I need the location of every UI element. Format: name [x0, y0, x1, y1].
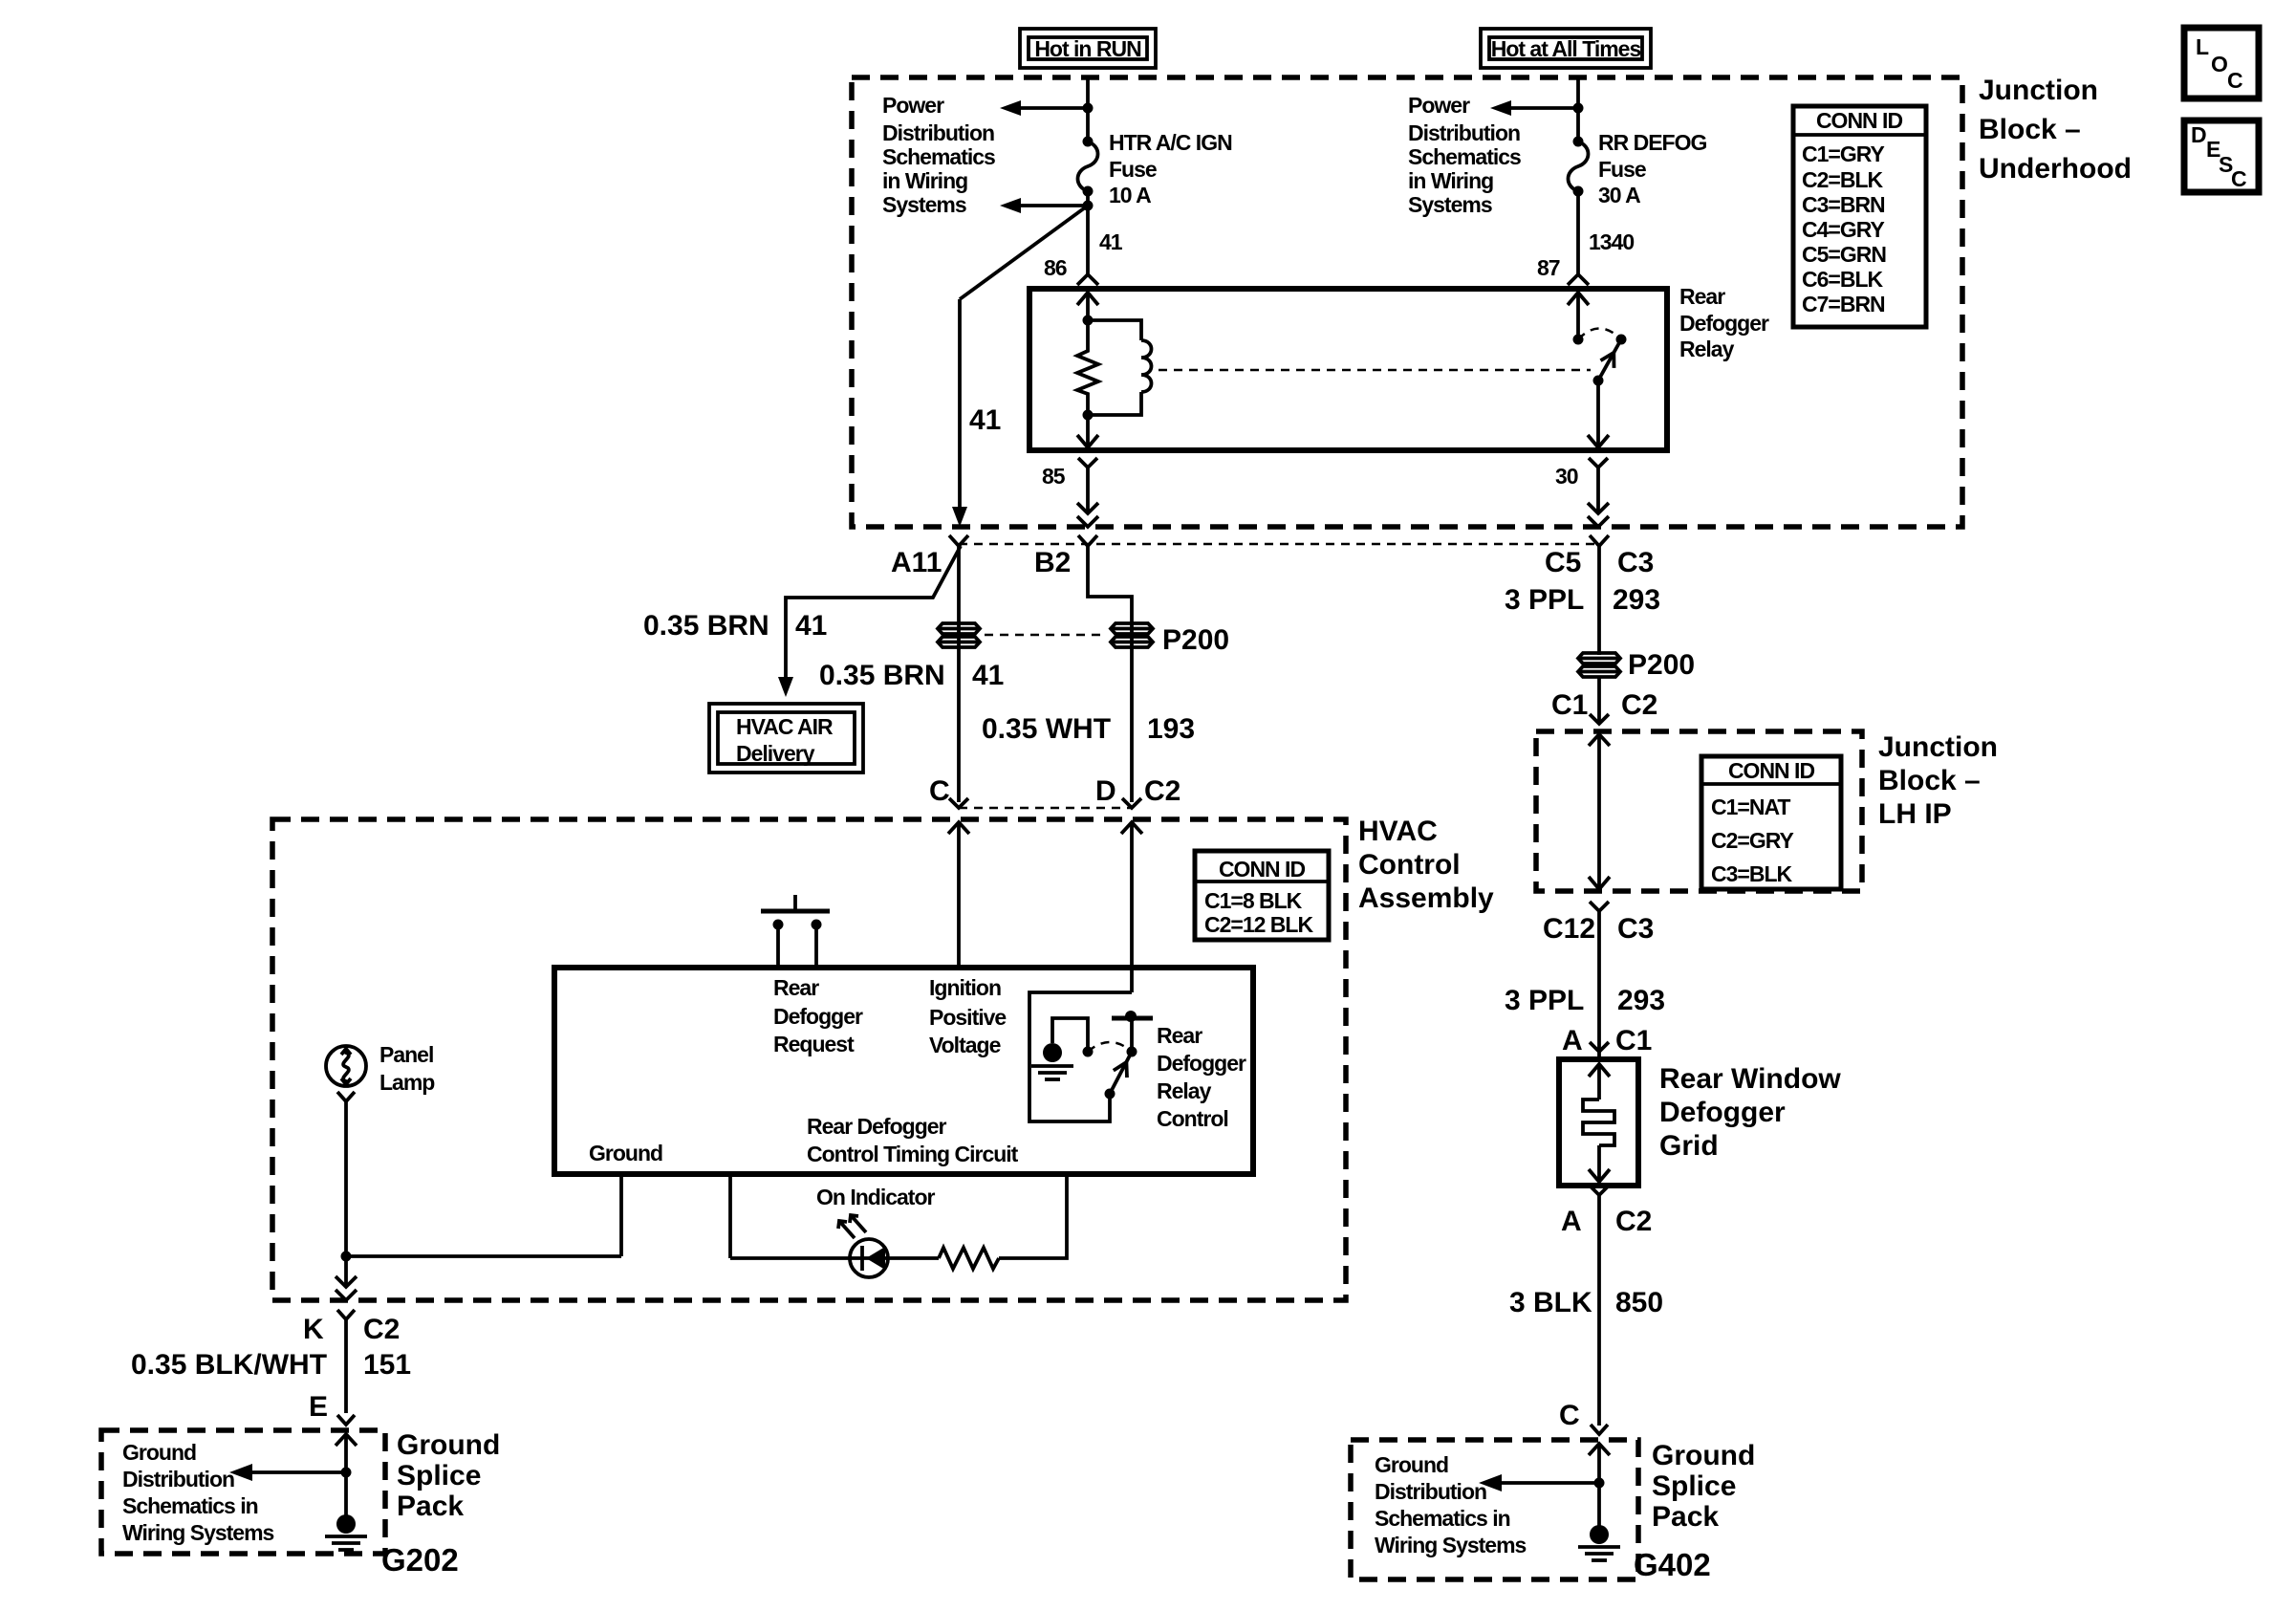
HVAC AIR Delivery box — [709, 704, 863, 773]
svg-text:A11: A11 — [891, 547, 942, 578]
connector Y at relay pin 86 — [1077, 274, 1098, 285]
wire: on indicator stub from timing box — [728, 1174, 732, 1258]
resistor inside relay — [1077, 320, 1098, 415]
svg-text:C3=BRN: C3=BRN — [1802, 192, 1885, 217]
CONN ID table (underhood) — [1793, 106, 1926, 327]
svg-text:C3=BLK: C3=BLK — [1711, 861, 1792, 886]
contact T bar — [1112, 1016, 1153, 1021]
ground splice pack G202 dashed boundary — [101, 1430, 385, 1554]
svg-text:1340: 1340 — [1589, 229, 1634, 254]
svg-text:Voltage: Voltage — [929, 1033, 1001, 1057]
svg-text:C2: C2 — [1621, 689, 1657, 721]
svg-text:Power: Power — [1408, 93, 1470, 118]
text: Rear Defogger Relay — [1679, 284, 1769, 361]
ground symbol G402 — [1578, 1545, 1620, 1549]
fuse RR DEFOG 30A — [1573, 137, 1584, 147]
inline connector P200 (circuit 293) — [1578, 653, 1620, 677]
wire: circuit 293 to defogger grid — [1597, 911, 1601, 1050]
svg-text:C2=12 BLK: C2=12 BLK — [1204, 912, 1313, 937]
Hot in RUN flag box — [1020, 29, 1156, 68]
svg-text:Underhood: Underhood — [1979, 153, 2132, 185]
svg-text:Ground: Ground — [122, 1440, 196, 1465]
svg-text:850: 850 — [1615, 1287, 1663, 1318]
svg-text:C1=GRY: C1=GRY — [1802, 142, 1884, 166]
svg-text:C: C — [2231, 166, 2246, 191]
svg-text:30: 30 — [1555, 464, 1578, 489]
CONN ID table (HVAC) — [1195, 851, 1329, 940]
pin 30 arrow inside relay — [1588, 435, 1609, 447]
svg-text:Systems: Systems — [882, 192, 966, 217]
svg-text:C5=GRN: C5=GRN — [1802, 242, 1886, 267]
svg-text:C: C — [929, 775, 950, 807]
connector Y pin C — [1591, 1425, 1608, 1434]
svg-text:Assembly: Assembly — [1358, 882, 1494, 914]
arrow: into HVAC AIR Delivery — [778, 677, 793, 697]
svg-text:Distribution: Distribution — [122, 1467, 234, 1491]
svg-text:Schematics: Schematics — [1408, 144, 1521, 169]
svg-text:in Wiring: in Wiring — [1408, 168, 1493, 193]
svg-text:0.35 BRN: 0.35 BRN — [643, 610, 769, 642]
svg-text:0.35 BLK/WHT: 0.35 BLK/WHT — [131, 1349, 327, 1381]
svg-text:Rear: Rear — [773, 975, 819, 1000]
wire: circuit 151 to splice pack — [344, 1319, 348, 1413]
svg-text:Rear Window: Rear Window — [1659, 1063, 1841, 1095]
wire: Hot in RUN feed down to fuse — [1086, 77, 1090, 141]
svg-text:Splice: Splice — [1652, 1470, 1736, 1502]
svg-text:Hot in RUN: Hot in RUN — [1034, 36, 1141, 61]
svg-text:Rear: Rear — [1157, 1023, 1202, 1048]
rear defogger control timing circuit box — [554, 968, 1253, 1174]
svg-text:C1: C1 — [1615, 1025, 1652, 1056]
svg-text:Distribution: Distribution — [1375, 1479, 1486, 1504]
rear defogger relay box — [1029, 289, 1667, 450]
svg-text:Junction: Junction — [1878, 731, 1998, 763]
svg-text:Splice: Splice — [397, 1460, 481, 1491]
connector Y pin C5/C3 — [1590, 535, 1609, 546]
svg-text:Ignition: Ignition — [929, 975, 1001, 1000]
svg-text:Ground: Ground — [397, 1429, 500, 1461]
svg-text:C2: C2 — [1144, 775, 1180, 807]
wire: fuse output — [1086, 191, 1090, 274]
svg-text:Schematics in: Schematics in — [1375, 1506, 1510, 1531]
inductor coil humps — [1141, 340, 1152, 392]
ground dot — [1043, 1043, 1062, 1062]
ground G402 dot — [1590, 1525, 1609, 1544]
svg-text:G402: G402 — [1634, 1547, 1711, 1582]
connector Y at grid pin A — [1590, 1042, 1609, 1052]
svg-text:Defogger: Defogger — [773, 1004, 863, 1029]
connector Y below relay pin 30 — [1589, 458, 1608, 468]
text: Rear Defogger Control Timing Circuit — [807, 1114, 1019, 1166]
svg-text:41: 41 — [972, 660, 1004, 691]
wire: splice branch arrow — [250, 1470, 346, 1474]
wire: circuit 850 to splice pack — [1597, 1195, 1601, 1426]
LED triangle — [866, 1247, 885, 1270]
thin dashed connector face row A11-B2-C5 — [959, 543, 1599, 546]
node: splice junction — [341, 1468, 352, 1478]
node: splice junction G402 — [1594, 1478, 1605, 1489]
svg-text:0.35 WHT: 0.35 WHT — [982, 713, 1111, 745]
svg-text:C1=NAT: C1=NAT — [1711, 795, 1790, 819]
wire: pin 30 down to junction block edge — [1596, 468, 1600, 512]
svg-text:LH IP: LH IP — [1878, 798, 1952, 830]
CONN ID table (LH IP) — [1701, 756, 1841, 889]
arrow out of grid — [1589, 1169, 1610, 1182]
LED circle — [850, 1239, 888, 1277]
svg-text:C2=GRY: C2=GRY — [1711, 828, 1793, 853]
svg-text:Rear Defogger: Rear Defogger — [807, 1114, 947, 1139]
text: Power Distribution Schematics in Wiring Systems (left) — [882, 93, 995, 217]
connector Y below grid — [1590, 1186, 1609, 1195]
LOC legend box — [2184, 28, 2259, 98]
svg-text:D: D — [2191, 122, 2206, 147]
LED cathode bar — [860, 1246, 864, 1271]
connector Y into LH IP — [1590, 714, 1609, 724]
svg-text:HTR A/C IGN: HTR A/C IGN — [1109, 130, 1232, 155]
text: Ground Distribution Schematics in Wiring Systems (G402) — [1375, 1452, 1527, 1557]
node: control switch contact — [1127, 1047, 1137, 1057]
svg-text:A: A — [1562, 1025, 1583, 1056]
svg-text:Panel: Panel — [379, 1042, 433, 1067]
inline connector P200 (left, circuit 41) — [938, 623, 980, 647]
svg-text:Systems: Systems — [1408, 192, 1492, 217]
ground symbol G202 — [325, 1535, 367, 1538]
wire: splice pack lead to G402 — [1597, 1444, 1601, 1535]
arrow into LH IP — [1589, 734, 1610, 746]
wire: A11 branch diagonal to HVAC AIR delivery — [786, 546, 961, 679]
svg-text:L: L — [2196, 34, 2209, 59]
text: Rear Defogger Relay Control — [1157, 1023, 1246, 1131]
wire: pin 85 down to junction block edge — [1086, 468, 1090, 512]
svg-text:C: C — [1559, 1400, 1580, 1431]
arrow into grid — [1589, 1064, 1610, 1077]
junction block LH IP dashed boundary — [1536, 731, 1862, 891]
svg-text:O: O — [2211, 52, 2227, 76]
svg-text:Schematics: Schematics — [882, 144, 995, 169]
svg-text:B2: B2 — [1034, 547, 1071, 578]
svg-text:Power: Power — [882, 93, 944, 118]
node: pushbutton contact left — [773, 920, 784, 930]
rear window defogger grid box — [1559, 1059, 1638, 1186]
wire: coil to pin 85 — [1086, 415, 1090, 446]
relay switch blade — [1598, 339, 1621, 381]
arrow out of LH IP — [1589, 877, 1610, 889]
arrow into G202 splice pack — [336, 1434, 357, 1446]
svg-text:C1: C1 — [1551, 689, 1588, 721]
text: Ground Splice Pack (right) — [1652, 1440, 1755, 1533]
node: pushbutton contact right — [812, 920, 822, 930]
LED emission arrows — [839, 1221, 855, 1238]
wire: grid element to pin A (C2) — [1597, 1145, 1601, 1181]
wire: circuit 41 vertical drop — [958, 299, 962, 510]
dashed tie between P200 halves — [985, 634, 1107, 637]
pin 85 arrow inside relay — [1077, 435, 1098, 447]
connector Y pin E — [337, 1415, 355, 1425]
Hot at All Times flag box — [1481, 29, 1651, 68]
svg-text:HVAC AIR: HVAC AIR — [736, 714, 834, 739]
dashed travel arc of control switch — [1088, 1042, 1132, 1052]
svg-text:Rear: Rear — [1679, 284, 1725, 309]
connector arrows at JB exit (pin 30 wire) — [1588, 503, 1609, 513]
svg-text:Hot at All Times: Hot at All Times — [1491, 36, 1641, 61]
svg-text:Fuse: Fuse — [1109, 157, 1157, 182]
wire: P200 to LH IP junction block — [1597, 677, 1601, 722]
svg-text:C3: C3 — [1617, 547, 1654, 578]
svg-text:CONN ID: CONN ID — [1728, 758, 1815, 783]
node: relay coil top junction — [1083, 316, 1094, 326]
svg-text:Pack: Pack — [397, 1491, 464, 1522]
node: relay switch fixed contact 87 — [1573, 335, 1584, 345]
svg-text:293: 293 — [1613, 584, 1660, 616]
arrow into HVAC pin C — [948, 822, 969, 834]
node: control switch pivot — [1105, 1089, 1116, 1099]
svg-text:Ground: Ground — [1652, 1440, 1755, 1471]
svg-text:Lamp: Lamp — [379, 1070, 435, 1095]
arrow into HVAC pin D — [1121, 822, 1142, 834]
node: relay switch contact (thrown) — [1616, 335, 1627, 345]
svg-text:41: 41 — [1099, 229, 1123, 254]
svg-text:Ground: Ground — [1375, 1452, 1448, 1477]
svg-text:C: C — [2227, 68, 2242, 93]
svg-text:C4=GRY: C4=GRY — [1802, 217, 1884, 242]
svg-text:C2: C2 — [363, 1314, 400, 1345]
junction block underhood dashed boundary — [852, 77, 1962, 527]
text: Panel Lamp — [379, 1042, 435, 1095]
text: Ground Splice Pack (left) — [397, 1429, 500, 1522]
svg-text:D: D — [1095, 775, 1116, 807]
ground G202 dot — [336, 1514, 356, 1534]
arrow into G402 splice pack — [1589, 1444, 1610, 1455]
ground bracket inside timing box — [1052, 1018, 1088, 1047]
text: Rear Window Defogger Grid — [1659, 1063, 1841, 1162]
svg-text:0.35 BRN: 0.35 BRN — [819, 660, 945, 691]
dashed actuation link from coil to switch — [1159, 369, 1591, 372]
svg-text:P200: P200 — [1162, 624, 1229, 656]
connector arrows at JB exit (pin 85 wire) — [1077, 503, 1098, 513]
node: panel lamp ground junction — [341, 1252, 352, 1262]
svg-text:CONN ID: CONN ID — [1219, 857, 1306, 882]
svg-text:Defogger: Defogger — [1679, 311, 1769, 336]
wire: ground stub from timing box — [619, 1174, 623, 1256]
svg-text:151: 151 — [363, 1349, 411, 1381]
svg-text:Relay: Relay — [1157, 1078, 1212, 1103]
svg-text:193: 193 — [1147, 713, 1195, 745]
svg-text:Block –: Block – — [1979, 114, 2081, 145]
svg-text:Control: Control — [1358, 849, 1461, 881]
svg-text:Positive: Positive — [929, 1005, 1006, 1030]
text: fuse label HTR A/C IGN Fuse 10 A — [1109, 130, 1232, 207]
svg-text:Distribution: Distribution — [882, 120, 994, 145]
node: junction dot on B+ feed — [1573, 103, 1584, 114]
svg-text:C1=8 BLK: C1=8 BLK — [1204, 888, 1303, 913]
svg-text:in Wiring: in Wiring — [882, 168, 967, 193]
wire: diagonal branch from fuse node to circuit 41 — [960, 206, 1088, 299]
svg-text:Relay: Relay — [1679, 337, 1735, 361]
node: relay switch pivot pin 30 — [1593, 376, 1604, 386]
wire: LED anode lead — [730, 1256, 939, 1260]
wire: resistor to timing box — [999, 1174, 1067, 1258]
svg-text:HVAC: HVAC — [1358, 816, 1438, 847]
svg-text:Wiring Systems: Wiring Systems — [122, 1520, 274, 1545]
text: Rear Defogger Request — [773, 975, 863, 1056]
svg-text:Pack: Pack — [1652, 1501, 1719, 1533]
svg-text:C7=BRN: C7=BRN — [1802, 292, 1885, 316]
connector arrows at HVAC exit (lamp ground wire) — [336, 1276, 357, 1287]
svg-text:30 A: 30 A — [1598, 183, 1640, 207]
svg-text:Junction: Junction — [1979, 75, 2098, 106]
connector Y pin B2 — [1078, 535, 1097, 546]
svg-text:Delivery: Delivery — [736, 741, 815, 766]
svg-text:K: K — [303, 1314, 324, 1345]
svg-text:Defogger: Defogger — [1659, 1097, 1786, 1128]
svg-text:Distribution: Distribution — [1408, 120, 1520, 145]
svg-text:41: 41 — [795, 610, 827, 642]
svg-text:A: A — [1561, 1206, 1582, 1237]
svg-text:On Indicator: On Indicator — [816, 1185, 936, 1209]
wire: feed through LH IP — [1597, 734, 1601, 888]
svg-text:86: 86 — [1044, 255, 1067, 280]
HVAC control assembly dashed boundary — [272, 819, 1346, 1300]
svg-text:41: 41 — [969, 404, 1001, 436]
svg-text:C5: C5 — [1545, 547, 1581, 578]
text: Ground Distribution Schematics in Wiring Systems (G202) — [122, 1440, 274, 1545]
svg-text:10 A: 10 A — [1109, 183, 1151, 207]
connector Y at relay pin 87 — [1568, 274, 1589, 285]
svg-text:RR DEFOG: RR DEFOG — [1598, 130, 1707, 155]
svg-text:Control Timing Circuit: Control Timing Circuit — [807, 1142, 1019, 1166]
connector Y below panel lamp — [337, 1092, 355, 1101]
svg-text:Wiring Systems: Wiring Systems — [1375, 1533, 1527, 1557]
node: junction dot below fuse — [1083, 201, 1094, 211]
wire: power distribution branch arrow (upper left) — [1019, 106, 1088, 110]
relay coil branch wire — [1088, 320, 1141, 340]
svg-text:C3: C3 — [1617, 913, 1654, 945]
svg-text:Control: Control — [1157, 1106, 1228, 1131]
svg-text:3 PPL: 3 PPL — [1505, 584, 1584, 616]
text: Ignition Positive Voltage — [929, 975, 1006, 1057]
wire: splice branch arrow G402 — [1500, 1481, 1599, 1485]
wire: Hot at All Times feed down to fuse — [1576, 77, 1580, 141]
node: junction dot on RUN feed — [1083, 103, 1094, 114]
wire: pivot to pin 30 — [1596, 381, 1600, 446]
control switch blade — [1110, 1052, 1132, 1094]
svg-text:85: 85 — [1042, 464, 1066, 489]
connector Y below relay pin 85 — [1078, 458, 1097, 468]
svg-text:CONN ID: CONN ID — [1816, 108, 1903, 133]
svg-text:Defogger: Defogger — [1157, 1051, 1246, 1076]
panel lamp bulb — [326, 1046, 366, 1086]
dashed travel arc of relay switch — [1578, 329, 1621, 340]
pin 87 arrow inside relay — [1568, 293, 1589, 305]
connector Y pin A11 — [949, 535, 968, 546]
wire: relay control feed inside HVAC — [1130, 822, 1134, 992]
DESC legend box — [2184, 120, 2259, 192]
wire: panel lamp to ground junction — [344, 1101, 348, 1285]
wire: splice pack lead to G202 — [344, 1434, 348, 1524]
wire: power distribution branch arrow (lower left) — [1019, 204, 1088, 207]
wire: circuit 293 from C3 to P200 — [1597, 546, 1601, 655]
svg-text:C2=BLK: C2=BLK — [1802, 167, 1883, 192]
wire: fuse output to pin 87 — [1576, 191, 1580, 274]
svg-text:C2: C2 — [1615, 1206, 1652, 1237]
ground symbol under dot — [1031, 1064, 1073, 1068]
wire: ground bus to panel lamp — [346, 1254, 621, 1258]
connector Y pin K below HVAC — [337, 1310, 355, 1319]
svg-text:Fuse: Fuse — [1598, 157, 1646, 182]
text: fuse label RR DEFOG Fuse 30 A — [1598, 130, 1707, 207]
wire: A11 to HVAC pin C — [957, 546, 961, 802]
svg-text:3 BLK: 3 BLK — [1509, 1287, 1592, 1318]
resistor (on indicator) — [939, 1248, 999, 1269]
svg-text:C12: C12 — [1543, 913, 1595, 945]
svg-text:Request: Request — [773, 1032, 855, 1056]
wire: pushbutton stubs into timing circuit — [776, 925, 780, 968]
node: relay coil bottom junction — [1083, 410, 1094, 421]
wire: power distribution branch arrow (right) — [1509, 106, 1578, 110]
fuse HTR A/C IGN 10A — [1083, 137, 1094, 147]
connector Y below LH IP pin C12 — [1590, 902, 1609, 911]
node: NC contact dot — [1083, 1047, 1094, 1057]
text: Power Distribution Schematics in Wiring Systems (right) — [1408, 93, 1521, 217]
wire: ignition positive voltage feed inside HVAC — [957, 822, 961, 968]
svg-text:C6=BLK: C6=BLK — [1802, 267, 1883, 292]
connector Y HVAC pin D — [1122, 798, 1141, 808]
wire: relay control path inside timing box — [1029, 992, 1132, 1121]
wire: B2 jog to circuit 193 — [1088, 546, 1132, 802]
svg-text:Ground: Ground — [589, 1141, 662, 1165]
arrow: circuit 41 into connector row — [952, 507, 967, 527]
svg-text:Grid: Grid — [1659, 1130, 1719, 1162]
svg-text:Schematics in: Schematics in — [122, 1493, 258, 1518]
svg-text:3 PPL: 3 PPL — [1505, 985, 1584, 1016]
ground splice pack G402 dashed boundary — [1351, 1440, 1638, 1579]
svg-text:G202: G202 — [381, 1542, 459, 1578]
svg-text:E: E — [309, 1391, 328, 1423]
svg-text:P200: P200 — [1628, 649, 1695, 681]
rear defogger request pushbutton bar — [761, 909, 830, 914]
pin 86 arrow inside relay — [1077, 293, 1098, 305]
inline connector P200 (right, circuit 193) — [1111, 623, 1153, 647]
svg-text:Block –: Block – — [1878, 765, 1981, 796]
pushbutton stem — [793, 895, 797, 911]
svg-text:87: 87 — [1537, 255, 1560, 280]
connector Y HVAC pin C — [949, 798, 968, 808]
thin dashed connector face row C-D (HVAC) — [959, 807, 1132, 810]
defogger grid element — [1583, 1099, 1614, 1145]
svg-text:293: 293 — [1617, 985, 1665, 1016]
